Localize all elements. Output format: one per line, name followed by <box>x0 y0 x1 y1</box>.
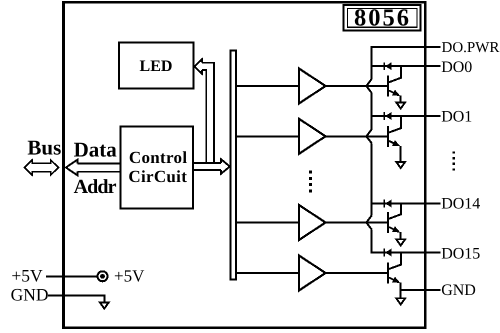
wire DO.PWR <box>371 46 441 48</box>
board outline <box>64 2 426 328</box>
wire bus to buffer 4 <box>237 272 300 274</box>
bus bidirectional hollow arrow <box>25 160 59 175</box>
transistor Q2 <box>388 116 401 161</box>
wire bus to buffer 2 <box>237 135 300 137</box>
svg-text:Control: Control <box>129 148 187 167</box>
svg-text:DO0: DO0 <box>441 59 472 76</box>
svg-text:Bus: Bus <box>27 136 61 160</box>
svg-text:LED: LED <box>140 58 173 75</box>
transistor Q1 <box>388 66 401 102</box>
+5V terminal circle <box>98 271 108 281</box>
svg-text:+5V: +5V <box>114 266 145 285</box>
svg-text:GND: GND <box>11 285 49 305</box>
wire DO15 <box>371 252 441 254</box>
diode D2 <box>384 112 391 120</box>
svg-text:DO1: DO1 <box>441 108 472 125</box>
wire buffer 3 to Q3 base <box>326 222 388 224</box>
internal data bus bar <box>231 51 237 280</box>
wire +5V in <box>46 275 98 277</box>
svg-text:8056: 8056 <box>354 4 411 31</box>
DO.PWR rail with hops <box>366 47 371 253</box>
transistor Q4 <box>388 253 401 298</box>
svg-text:GND: GND <box>441 282 476 299</box>
buffer 1 <box>299 69 326 104</box>
wire GND in <box>48 295 104 302</box>
diode D4 <box>384 249 391 257</box>
hollow arrow control to LED <box>194 59 214 163</box>
wire DO14 <box>371 203 441 205</box>
LED box <box>119 43 194 89</box>
svg-text:CirCuit: CirCuit <box>128 167 187 186</box>
ground arrow GND <box>100 302 109 308</box>
ground arrow Q2 emitter <box>396 162 405 168</box>
svg-text:DO14: DO14 <box>441 195 480 212</box>
buffer 2 <box>299 119 326 154</box>
wire buffer 1 to Q1 base <box>326 85 388 87</box>
data/addr hollow arrow to bus <box>66 160 122 176</box>
wire DO1 <box>371 115 441 117</box>
diode D3 <box>384 200 391 208</box>
control circuit box U1 <box>121 127 194 209</box>
wire buffer 4 to Q4 base <box>326 272 388 274</box>
title box 8056 <box>344 4 421 31</box>
svg-text:DO15: DO15 <box>441 245 480 262</box>
ground arrow Q3 emitter <box>396 239 405 245</box>
wire GND out <box>401 289 441 291</box>
wire bus to buffer 3 <box>237 222 300 224</box>
wire DO0 <box>371 65 441 67</box>
wire buffer 2 to Q2 base <box>326 135 388 137</box>
ellipsis dots right <box>453 151 455 170</box>
svg-text:Data: Data <box>74 138 118 162</box>
diode D1 <box>384 62 391 70</box>
hollow arrow control to data bus bar <box>194 159 230 174</box>
transistor Q3 <box>388 204 401 239</box>
svg-text:+5V: +5V <box>11 266 43 286</box>
ellipsis dots middle <box>309 171 312 193</box>
svg-text:DO.PWR: DO.PWR <box>442 40 500 56</box>
buffer 3 <box>299 205 326 240</box>
svg-text:Addr: Addr <box>74 176 117 198</box>
ground arrow Q4 emitter <box>396 298 405 304</box>
wire bus to buffer 1 <box>237 85 300 87</box>
buffer 4 <box>299 256 326 291</box>
ground arrow Q1 emitter <box>396 102 405 108</box>
